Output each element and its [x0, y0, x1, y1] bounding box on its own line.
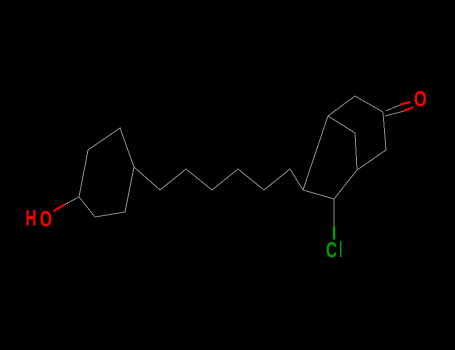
svg-text:O: O [414, 87, 427, 112]
ring A (cyclohexanol ring) [79, 128, 134, 217]
wire: steep bond up to ring B [303, 116, 328, 190]
svg-text:l: l [339, 237, 342, 262]
wire: apex path to carbonyl carbon [328, 96, 383, 116]
wire: gray half of O-C1 bond [64, 197, 79, 205]
ring B edges [303, 116, 357, 199]
wire: C-Cl bond green half [333, 228, 335, 239]
wire: polyene chain [134, 167, 303, 190]
svg-text:H: H [26, 207, 37, 231]
ring C edges [357, 112, 386, 170]
wire: red half of HO-C bond [54, 205, 64, 211]
carbonyl C=O red halves [401, 102, 410, 104]
svg-text:C: C [326, 239, 337, 263]
carbonyl gray half (double bond) [386, 105, 401, 111]
wire: C-Cl bond gray half [333, 199, 335, 227]
svg-text:O: O [40, 208, 52, 232]
